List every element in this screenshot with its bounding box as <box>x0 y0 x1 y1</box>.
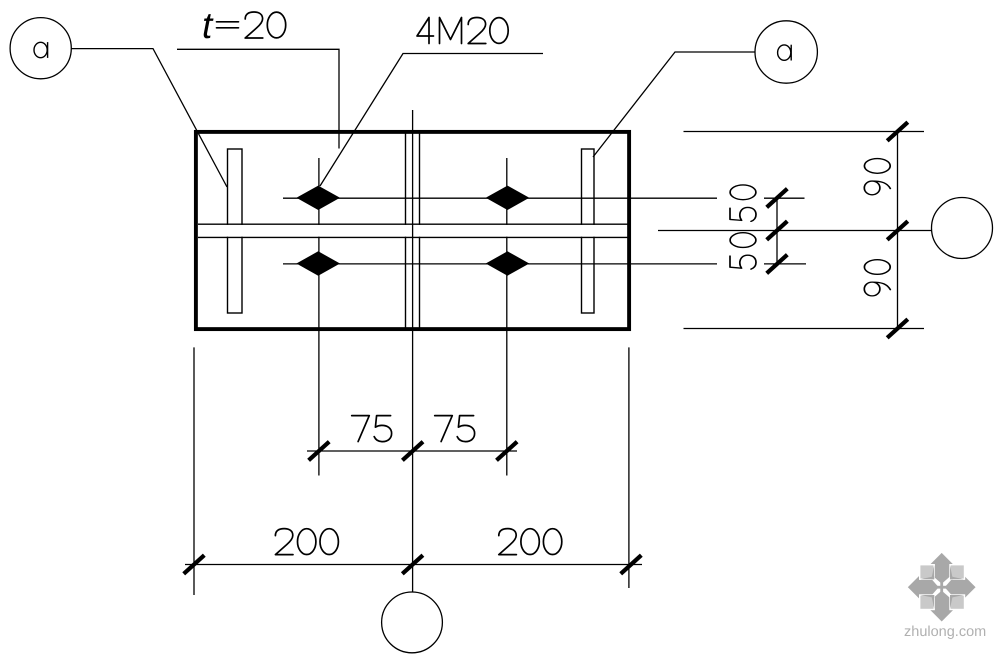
right plate extension line down <box>628 347 630 588</box>
watermark logo arrow N <box>925 552 959 583</box>
label a (top left bubble) bowl <box>34 42 47 57</box>
dimension line 200/200 <box>185 564 642 566</box>
tick at 200 middle <box>402 555 423 574</box>
tick at 75 left <box>309 442 330 461</box>
dim text 75 left <box>352 416 392 442</box>
dimension line 50/50 vertical <box>776 198 778 264</box>
leader wire under t=20 down into plate <box>177 49 339 148</box>
dimension line 90/90 vertical <box>897 132 899 329</box>
watermark logo fold wedge TL bottom <box>921 576 935 579</box>
top extension line for 90 <box>684 131 925 133</box>
svg-text:zhulong.com: zhulong.com <box>904 624 986 640</box>
bolt row line top <box>283 197 805 199</box>
tick at 75 middle <box>402 442 423 461</box>
tick at 90 bottom <box>887 319 908 338</box>
label a (top right bubble) bowl <box>778 45 791 60</box>
watermark logo square TL <box>920 565 935 580</box>
bolt row line bottom <box>283 263 806 265</box>
bolt column extension line left <box>318 158 320 476</box>
tick at 50 bottom <box>767 255 788 274</box>
watermark logo fold wedge BR left <box>950 595 953 609</box>
watermark logo fold wedge BL top <box>921 595 935 598</box>
dim text 90 lower <box>864 260 890 296</box>
watermark logo fold wedge TL right <box>931 566 934 580</box>
bolt column extension line right <box>506 158 508 476</box>
watermark logo arrow W <box>907 570 938 604</box>
base plate outline <box>196 132 629 329</box>
svg-text:t: t <box>202 5 214 46</box>
watermark logo arrow E <box>945 570 976 604</box>
tick at 90 middle <box>887 221 908 240</box>
bottom extension line for 90 <box>684 328 925 330</box>
tick at 75 right <box>497 442 518 461</box>
bolt B4 (bottom right) <box>486 251 530 275</box>
left plate extension line down <box>193 347 195 595</box>
bolt B2 (top right) <box>486 186 530 210</box>
watermark logo center cross vertical <box>940 580 943 595</box>
middle horizontal line to section circle <box>658 230 932 232</box>
flange band mask <box>199 225 628 237</box>
column flange line bottom <box>198 236 628 238</box>
left anchor slot <box>228 149 243 313</box>
section circle bottom <box>382 592 443 653</box>
watermark logo fold wedge BL right <box>931 595 934 609</box>
tick at 200 right <box>621 555 642 574</box>
label a (top left bubble) stem <box>47 42 49 58</box>
tick at 50 top <box>767 189 788 208</box>
section circle right <box>932 198 993 259</box>
tick at 90 top <box>887 122 908 141</box>
dim text 200 left <box>275 529 338 555</box>
dim text 200 right <box>499 529 562 555</box>
section bubble a (top left) <box>10 18 71 79</box>
dim text 50 lower <box>730 233 756 269</box>
watermark logo fold wedge TR left <box>950 566 953 580</box>
dim text 90 upper <box>864 159 890 195</box>
label a (top right bubble) stem <box>790 45 792 61</box>
vertical centerline <box>412 110 414 592</box>
leader wire from right bubble a to right slot <box>593 52 755 157</box>
watermark logo square TR <box>950 565 965 580</box>
watermark logo fold wedge BR top <box>950 595 964 598</box>
leader wire under 4M20 down to bolt B1 <box>320 54 543 187</box>
bolt B1 (top left) <box>296 186 340 210</box>
tick at 200 left <box>184 555 205 574</box>
watermark logo square BR <box>950 595 965 610</box>
watermark logo square BL <box>920 595 935 610</box>
section bubble a (top right) <box>755 21 817 83</box>
column web vertical line right <box>419 134 421 328</box>
label 4M20 <box>417 18 508 44</box>
watermark logo center cross horizontal <box>934 586 949 589</box>
leader wire from bubble a to left slot <box>72 49 228 187</box>
right anchor slot <box>582 149 595 313</box>
dim text 50 upper <box>730 185 756 221</box>
column flange line top <box>198 223 628 225</box>
bolt B3 (bottom left) <box>296 251 340 275</box>
dim text 75 right <box>435 416 475 442</box>
column web vertical line left <box>405 134 407 328</box>
tick at 50 middle <box>767 221 788 240</box>
watermark logo fold wedge TR bottom <box>950 576 964 579</box>
watermark logo arrow S <box>925 591 959 622</box>
dimension line 75/75 <box>307 450 517 452</box>
